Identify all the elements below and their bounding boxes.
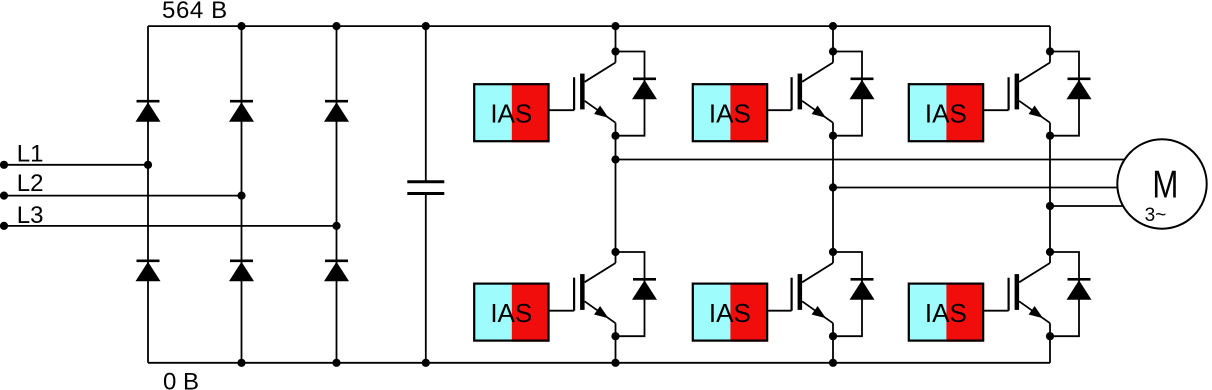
svg-text:564 В: 564 В xyxy=(162,0,228,24)
svg-text:0 В: 0 В xyxy=(163,368,199,390)
svg-text:L3: L3 xyxy=(17,202,44,229)
svg-text:M: M xyxy=(1152,163,1178,206)
svg-text:L2: L2 xyxy=(17,170,44,197)
svg-text:L1: L1 xyxy=(17,141,44,168)
svg-text:3~: 3~ xyxy=(1145,205,1167,226)
